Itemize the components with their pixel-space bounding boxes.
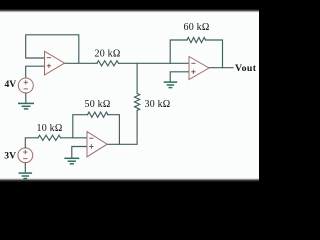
wire 20k to U3 - input: [119, 62, 190, 64]
ground at U3 + input: [164, 82, 178, 88]
voltage source 4V: [18, 78, 33, 93]
wire 10k to U2 - input: [61, 137, 87, 139]
wire U2 feedback right: [108, 115, 120, 145]
svg-text:10 kΩ: 10 kΩ: [37, 123, 63, 134]
wire U3 feedback left: [170, 40, 187, 63]
ground under 4V: [18, 103, 34, 109]
op-amp U2: [87, 132, 107, 157]
svg-text:Vout: Vout: [235, 63, 257, 74]
resistor R3 30k: [135, 93, 140, 110]
op-amp U1: [45, 51, 65, 75]
wire U3 + input to ground: [170, 72, 189, 82]
wire U2 + input to ground: [72, 147, 87, 158]
svg-text:60 kΩ: 60 kΩ: [184, 22, 210, 33]
wire U3 output to Vout: [209, 67, 233, 69]
wire U2 feedback left: [73, 115, 88, 138]
voltage source 3V: [18, 148, 33, 163]
wire node A down to 30k: [136, 63, 138, 93]
wire 4V to U1 + input: [26, 66, 45, 78]
svg-text:50 kΩ: 50 kΩ: [85, 99, 111, 110]
wire op-amp U1 feedback loop: [26, 35, 97, 64]
svg-text:4V: 4V: [4, 79, 16, 90]
wire U3 feedback right: [206, 40, 223, 68]
wire 4V to ground: [25, 93, 27, 103]
wire 3V to 10k: [25, 138, 38, 148]
resistor R2 10k: [38, 135, 61, 140]
op-amp U3: [189, 57, 209, 80]
svg-text:20 kΩ: 20 kΩ: [95, 49, 121, 60]
svg-text:3V: 3V: [4, 150, 16, 161]
resistor R4 60k: [187, 37, 206, 42]
wire 30k to U2 output: [107, 111, 137, 145]
wire 3V to ground: [24, 163, 26, 173]
resistor R1 20k: [97, 61, 119, 66]
ground at U2 + input: [64, 158, 79, 164]
ground under 3V: [19, 173, 32, 179]
svg-text:30 kΩ: 30 kΩ: [145, 99, 171, 110]
resistor R5 50k: [88, 112, 108, 117]
